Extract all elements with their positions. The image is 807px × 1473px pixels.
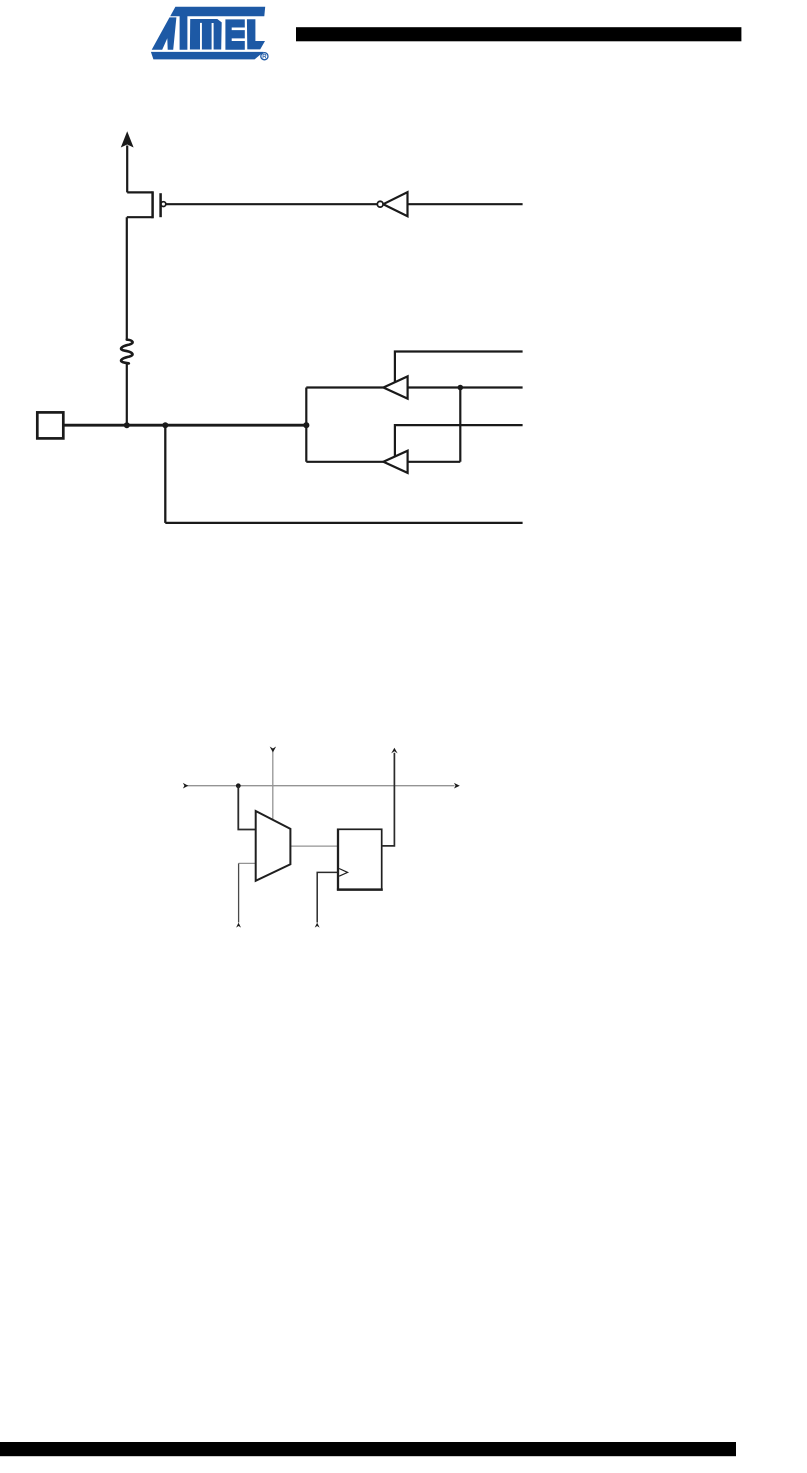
flip-flop Q output wire [382, 753, 395, 846]
Q output up arrow [391, 748, 397, 754]
VCC arrow [121, 131, 134, 147]
node dot at buffer inputs [458, 385, 464, 391]
wire node to bottom line [165, 425, 522, 523]
PUD down chevron [270, 747, 276, 753]
PUD gray vertical line [272, 752, 274, 820]
pmos drain lead [127, 216, 153, 218]
logo letter L [247, 19, 265, 49]
wire inverter input [408, 203, 523, 205]
logo top bar [170, 7, 265, 17]
wire buffer2 OE line [395, 425, 523, 457]
wire gate to inverter [166, 203, 377, 205]
wire drain to resistor [126, 217, 128, 340]
wire buffer outputs vertical [305, 388, 307, 462]
wire mux input 2 down [238, 863, 240, 922]
pmos gate bubble [161, 202, 166, 207]
up arrow below clock [315, 923, 320, 928]
resistor R pull-up zigzag [121, 340, 132, 364]
footer bar [0, 1442, 736, 1456]
wire VCC vertical [126, 146, 128, 193]
wire buffer1 OE line [395, 352, 523, 384]
flip-flop left edge thick [337, 829, 339, 891]
mux trapezoid [256, 811, 291, 881]
logo bottom bar [151, 52, 264, 60]
mux input 2 line [239, 862, 256, 864]
flip-flop rectangle [338, 829, 382, 889]
wire buffer1 output [306, 386, 383, 388]
wire buffer1 input [408, 386, 523, 388]
node dot at resistor [124, 422, 130, 428]
logo letter A [152, 17, 177, 49]
wire bus to mux input 1 [238, 786, 255, 830]
header bar [296, 27, 741, 41]
wire buffer2 input [408, 461, 461, 463]
wire buffer1 input to buffer2 input [459, 388, 461, 462]
mux output line [290, 845, 338, 847]
wire resistor to node [126, 363, 128, 425]
up arrow below mux input 2 [236, 923, 241, 928]
inverter U1 bubble [377, 201, 383, 207]
pmos source lead [127, 191, 152, 193]
bus line [187, 785, 455, 787]
bus arrow right [454, 783, 460, 789]
logo registered mark [261, 53, 268, 60]
Atmel logo [151, 7, 268, 60]
clock wire [317, 872, 338, 922]
pad square [37, 412, 63, 438]
pmos gate bar [159, 193, 162, 217]
buffer U3 triangle [383, 451, 407, 473]
wire buffer2 output [306, 461, 383, 463]
node dot at bottom branch [162, 422, 168, 428]
logo letter M [190, 19, 222, 50]
buffer U2 triangle [383, 376, 407, 398]
pmos channel bar [151, 191, 154, 218]
inverter U1 triangle [383, 192, 407, 216]
pad wire [63, 424, 306, 427]
bus node dot [236, 783, 241, 788]
flip-flop clock wedge [339, 869, 348, 877]
logo letter E [225, 19, 244, 49]
flip-flop bottom edge thick [337, 888, 383, 891]
logo letter T stem [180, 16, 188, 50]
node dot at buffer outputs [303, 422, 309, 428]
bus arrow left [183, 783, 188, 789]
